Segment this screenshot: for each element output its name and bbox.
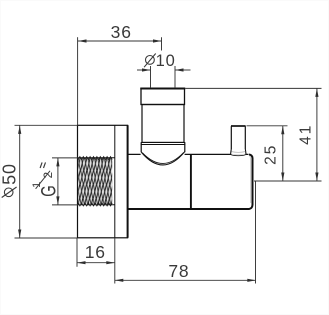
thread crest teeth top	[78, 157, 112, 160]
svg-text:78: 78	[168, 261, 189, 281]
body section divider	[190, 154, 192, 209]
extension lines for 36	[77, 37, 79, 125]
rosette flange plate (⌀50 cover)	[78, 125, 128, 238]
spout base shading	[231, 154, 246, 156]
svg-text:10: 10	[156, 52, 176, 70]
dimension 36: dim line	[78, 37, 162, 125]
rosette front face divider	[114, 125, 116, 238]
text ⌀10	[144, 54, 156, 68]
dimension 16	[77, 238, 115, 284]
svg-text:36: 36	[111, 22, 132, 42]
bonnet ring band	[141, 143, 185, 153]
stem body column	[142, 105, 184, 143]
stem cap top thick line	[140, 88, 185, 90]
svg-text:41: 41	[297, 124, 314, 145]
dimension G1/2"	[52, 158, 78, 205]
dimension 25	[247, 126, 322, 181]
svg-text:16: 16	[85, 242, 106, 262]
valve body bottom line	[128, 208, 250, 210]
thread crest teeth bottom	[78, 203, 112, 206]
svg-text:50: 50	[0, 163, 20, 185]
body centerline extension	[254, 180, 322, 182]
text ⌀50	[2, 187, 17, 198]
body right end cap	[249, 155, 253, 209]
rosette right edge (thick, body side)	[127, 125, 129, 238]
valve body top line	[128, 153, 249, 155]
svg-text:25: 25	[263, 144, 280, 165]
dimension 41	[185, 88, 321, 181]
stem cap (handle mount)	[141, 89, 185, 105]
top extension line (stem top)	[185, 87, 321, 89]
dimension ⌀50	[15, 125, 78, 238]
spout top extension line	[247, 125, 288, 127]
thread hatch block	[78, 158, 112, 205]
outlet spout	[231, 126, 246, 156]
dimension 78	[115, 181, 256, 284]
bonnet curved base (double arc)	[141, 152, 184, 165]
text G1/2"	[31, 162, 60, 196]
G1/2 threaded pipe outline	[78, 157, 115, 159]
dimension ⌀10	[137, 66, 191, 88]
